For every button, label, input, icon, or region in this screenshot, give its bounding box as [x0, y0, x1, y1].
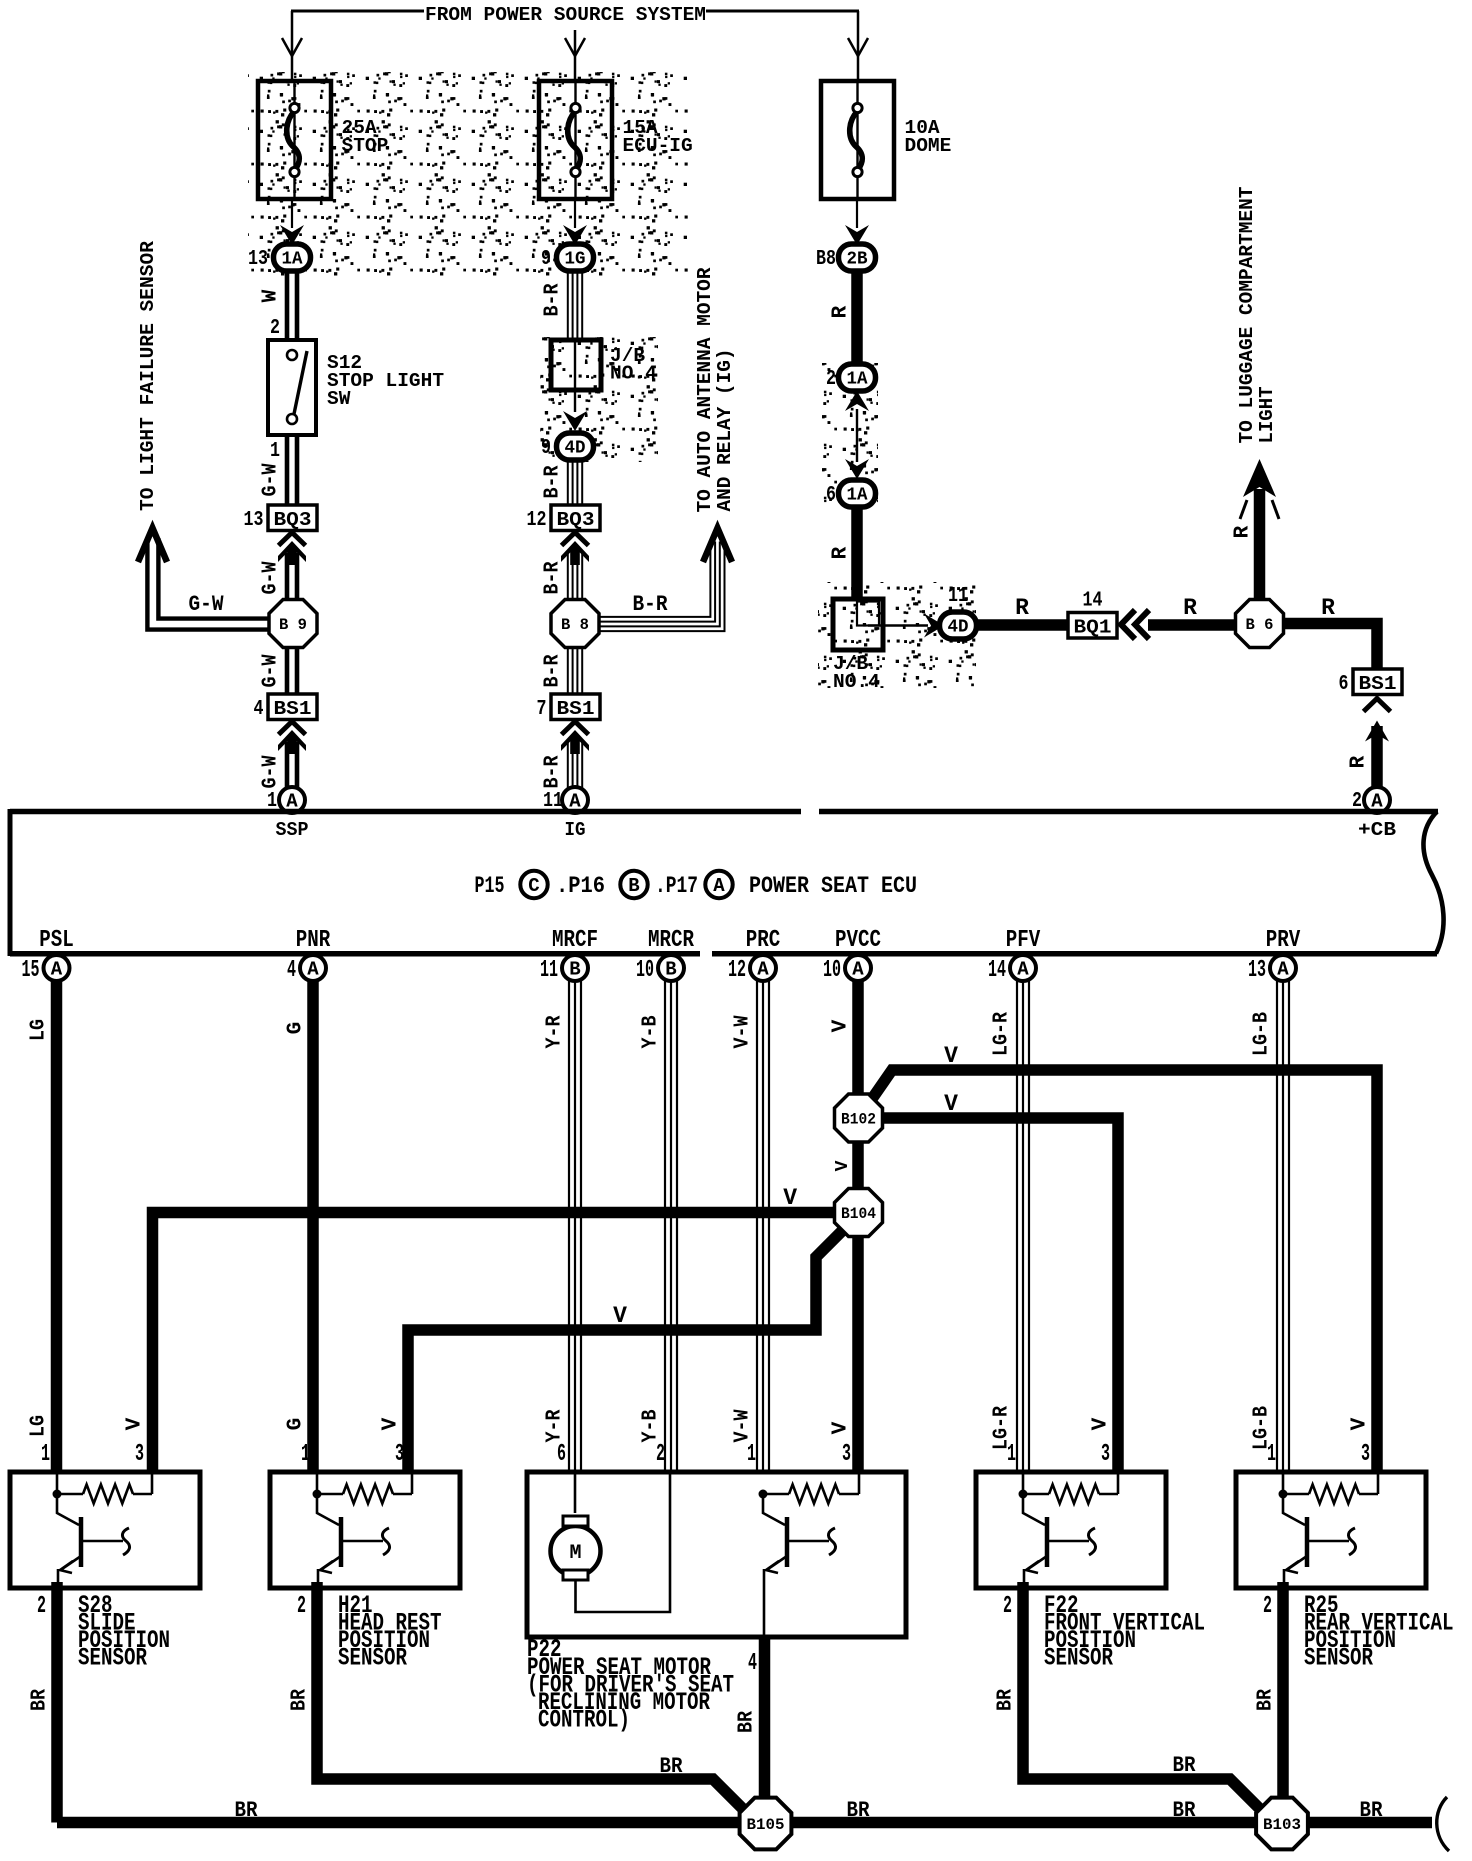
ECU pin 10 A (PVCC) — [823, 927, 881, 984]
svg-text:13: 13 — [1248, 957, 1266, 984]
svg-text:11: 11 — [948, 585, 968, 608]
wire Y-R from MRCF to P22 — [544, 981, 582, 1474]
svg-text:1A: 1A — [847, 486, 868, 506]
svg-text:PRC: PRC — [746, 927, 781, 954]
wire B-R to J/B No.4 — [542, 271, 583, 340]
wire G-W branch to light failure sensor — [138, 528, 269, 630]
svg-text:.P16: .P16 — [556, 873, 605, 899]
svg-text:V: V — [833, 1160, 853, 1171]
label TO AUTO ANTENNA MOTOR AND RELAY (IG) — [694, 267, 736, 512]
svg-text:2: 2 — [656, 1441, 665, 1468]
ECU pin 10 B (MRCR) — [636, 927, 694, 984]
wire V from B104 to S28 pin 3 — [124, 1185, 837, 1474]
svg-text:4: 4 — [254, 698, 264, 721]
wire R from 1A to J/B No.4 — [830, 507, 858, 599]
svg-text:NO.4: NO.4 — [610, 363, 657, 385]
wire V from PVCC to B102 — [830, 981, 859, 1095]
svg-text:V-W: V-W — [732, 1015, 755, 1048]
splice B 8 — [551, 600, 599, 648]
sensor H21 HEAD REST POSITION SENSOR — [270, 1441, 460, 1673]
wire B-R branch to auto antenna relay — [600, 528, 732, 631]
junction 13 BQ3 — [244, 505, 318, 532]
svg-text:A: A — [1017, 959, 1029, 981]
svg-text:M: M — [569, 1542, 581, 1565]
label J/B No.4 (DOME) — [833, 653, 880, 693]
svg-text:Y-B: Y-B — [640, 1015, 663, 1048]
svg-text:LG: LG — [28, 1415, 51, 1437]
svg-text:SW: SW — [327, 388, 351, 410]
wire G-W from S12 to junction BQ3 — [260, 435, 298, 505]
wire B-R from 4D to BQ3 — [542, 460, 583, 505]
svg-text:V: V — [380, 1417, 403, 1430]
svg-text:LG: LG — [28, 1019, 51, 1041]
wire Y-B from MRCR to P22 — [640, 981, 678, 1474]
svg-text:14: 14 — [1083, 590, 1103, 613]
svg-text:1: 1 — [1007, 1441, 1016, 1468]
svg-text:+CB: +CB — [1358, 819, 1396, 841]
svg-text:SENSOR: SENSOR — [338, 1644, 407, 1673]
svg-text:B102: B102 — [841, 1111, 876, 1129]
ECU pin 12 A (PRC) — [728, 927, 780, 984]
svg-text:BS1: BS1 — [274, 698, 312, 720]
svg-text:AND RELAY (IG): AND RELAY (IG) — [714, 349, 736, 512]
wire LG from PSL to S28 — [28, 981, 57, 1474]
wire G-W from ECU pin SSP with arrow — [260, 722, 307, 814]
svg-text:1: 1 — [1267, 1441, 1276, 1468]
label J/B No.4 — [610, 345, 657, 385]
svg-text:LG-R: LG-R — [991, 1012, 1014, 1056]
svg-text:R: R — [1321, 595, 1335, 621]
connector 11 4D — [924, 585, 977, 639]
svg-text:SENSOR: SENSOR — [78, 1644, 147, 1673]
splice B102 — [835, 1094, 883, 1142]
wire R from 4D to BQ1 — [977, 595, 1068, 625]
svg-text:BR: BR — [235, 1797, 258, 1823]
svg-text:TO LIGHT FAILURE SENSOR: TO LIGHT FAILURE SENSOR — [137, 241, 159, 511]
connector 2 1A — [826, 364, 876, 391]
svg-text:4D: 4D — [948, 618, 969, 638]
svg-text:B103: B103 — [1263, 1816, 1301, 1834]
junction 12 BQ3 — [527, 505, 601, 532]
wire G-W from BS1 to B9 — [260, 648, 298, 694]
svg-text:V: V — [944, 1043, 958, 1069]
wire LG-B from PRV to R25 — [1251, 981, 1290, 1474]
svg-text:3: 3 — [842, 1441, 851, 1468]
svg-text:R: R — [1183, 595, 1197, 621]
svg-text:10: 10 — [636, 957, 654, 984]
svg-text:B-R: B-R — [542, 283, 565, 316]
svg-text:1G: 1G — [565, 250, 586, 270]
ECU pin 2 A (+CB) — [1364, 787, 1390, 813]
wire B-R from B8 to BQ3 with arrow — [542, 533, 590, 601]
svg-text:15: 15 — [22, 957, 40, 984]
junction 4 BS1 — [254, 694, 318, 721]
ECU pin name SSP — [276, 819, 309, 841]
svg-text:B-R: B-R — [542, 465, 565, 498]
junction 7 BS1 — [537, 694, 601, 721]
svg-text:MRCR: MRCR — [648, 927, 694, 954]
junction 14 BQ1 — [1068, 590, 1117, 639]
wire from power source to ECU-IG fuse — [565, 30, 585, 81]
svg-text:V: V — [1090, 1417, 1113, 1430]
svg-text:2: 2 — [826, 368, 836, 391]
svg-text:B-R: B-R — [542, 561, 565, 594]
svg-text:B-R: B-R — [542, 755, 565, 788]
svg-text:13: 13 — [248, 248, 268, 271]
svg-text:V: V — [830, 1019, 853, 1032]
shaded area around 1A connectors (DOME column) — [822, 363, 878, 506]
switch S12 STOP LIGHT SW — [268, 340, 316, 435]
svg-text:4D: 4D — [565, 439, 586, 459]
svg-text:G-W: G-W — [260, 561, 283, 594]
wire G-W from B9 to BQ3 with arrow — [260, 533, 307, 601]
svg-text:7: 7 — [537, 698, 547, 721]
svg-text:B: B — [628, 875, 639, 897]
svg-text:NO.4: NO.4 — [833, 671, 880, 693]
svg-text:BR: BR — [1173, 1752, 1196, 1778]
svg-text:R: R — [1348, 755, 1371, 768]
svg-text:1: 1 — [270, 440, 280, 463]
svg-text:Y-R: Y-R — [544, 1409, 567, 1442]
svg-text:B-R: B-R — [633, 591, 668, 617]
svg-text:3: 3 — [395, 1441, 404, 1468]
wire R to luggage compartment light — [1232, 459, 1280, 599]
wire V-W from PRC to P22 — [732, 981, 770, 1474]
svg-text:2: 2 — [1003, 1593, 1012, 1620]
sensor R25 REAR VERTICAL POSITION SENSOR — [1236, 1441, 1454, 1673]
ECU pin 15 A (PSL) — [22, 927, 74, 984]
svg-text:P15: P15 — [475, 873, 505, 899]
svg-text:A: A — [51, 959, 63, 981]
svg-text:C: C — [528, 875, 539, 897]
wire R from ECU pin +CB with arrow — [1348, 699, 1391, 814]
ground bus BR — [57, 1797, 1449, 1851]
svg-text:6: 6 — [826, 484, 836, 507]
ECU pin name IG — [565, 819, 586, 841]
wire LG-R from PFV to F22 — [991, 981, 1030, 1474]
svg-text:R: R — [1232, 525, 1255, 538]
splice B104 — [835, 1189, 883, 1237]
svg-text:STOP: STOP — [342, 135, 389, 157]
svg-text:1: 1 — [747, 1441, 756, 1468]
svg-text:BR: BR — [660, 1753, 683, 1779]
svg-text:4: 4 — [287, 957, 296, 984]
ECU pin 14 A (PFV) — [988, 927, 1041, 984]
svg-text:3: 3 — [1101, 1441, 1110, 1468]
svg-text:6: 6 — [1339, 673, 1349, 696]
svg-text:PFV: PFV — [1006, 927, 1041, 954]
junction block J/B No.4 (IG) — [551, 340, 601, 390]
wire from DOME fuse to connector 2B — [845, 199, 869, 245]
svg-text:B: B — [569, 959, 580, 981]
sensor F22 FRONT VERTICAL POSITION SENSOR — [976, 1441, 1205, 1673]
svg-text:G: G — [285, 1418, 308, 1431]
splice B105 — [740, 1798, 792, 1850]
svg-text:V-W: V-W — [732, 1409, 755, 1442]
label P15 C P16 B P17 A POWER SEAT ECU — [475, 871, 918, 899]
svg-text:12: 12 — [728, 957, 746, 984]
shaded area around J/B No.4 (DOME column) — [818, 582, 976, 688]
svg-text:BS1: BS1 — [1359, 673, 1397, 695]
svg-text:BR: BR — [995, 1689, 1018, 1711]
svg-text:2: 2 — [1263, 1593, 1272, 1620]
POWER SEAT ECU box outline — [10, 809, 1444, 956]
wire from J/B No.4 to connector 4D — [563, 390, 587, 431]
svg-text:V: V — [783, 1185, 797, 1211]
wire V from B102 to F22 pin 3 — [881, 1091, 1118, 1474]
svg-text:IG: IG — [565, 819, 586, 841]
svg-text:A: A — [757, 959, 769, 981]
label P22 POWER SEAT MOTOR (FOR DRIVER'S SEAT RECLINING MOTOR CONTROL) — [527, 1635, 734, 1735]
ECU pin 11 A (IG) — [562, 787, 588, 813]
svg-text:CONTROL): CONTROL) — [538, 1706, 630, 1735]
svg-text:PNR: PNR — [296, 927, 331, 954]
svg-text:2: 2 — [270, 317, 280, 340]
svg-text:B8: B8 — [816, 248, 836, 271]
svg-text:Y-B: Y-B — [640, 1409, 663, 1442]
label S12 STOP LIGHT SW — [327, 352, 444, 410]
svg-text:A: A — [1277, 959, 1289, 981]
svg-text:V: V — [944, 1091, 958, 1117]
svg-text:PRV: PRV — [1266, 927, 1301, 954]
svg-text:12: 12 — [527, 509, 547, 532]
connector 13 1A — [248, 244, 311, 271]
wire between 1A connectors — [845, 391, 869, 479]
svg-text:B-R: B-R — [542, 654, 565, 687]
ECU pin 4 A (PNR) — [287, 927, 331, 984]
svg-text:G-W: G-W — [260, 755, 283, 788]
sensor S28 SLIDE POSITION SENSOR — [10, 1441, 200, 1673]
junction 6 BS1 — [1339, 669, 1403, 696]
svg-text:B: B — [665, 959, 676, 981]
wire BR from H21 pin 2 to B105 — [289, 1582, 751, 1816]
svg-text:BQ3: BQ3 — [557, 509, 595, 531]
connector 6 1A — [826, 480, 876, 507]
svg-text:G-W: G-W — [260, 654, 283, 687]
svg-text:A: A — [852, 959, 864, 981]
svg-text:1A: 1A — [282, 250, 303, 270]
svg-text:B105: B105 — [747, 1816, 785, 1834]
svg-text:BR: BR — [847, 1797, 870, 1823]
svg-text:LG-B: LG-B — [1251, 1012, 1274, 1056]
ECU pin 11 B (MRCF) — [540, 927, 598, 984]
svg-text:TO LUGGAGE COMPARTMENT: TO LUGGAGE COMPARTMENT — [1236, 186, 1258, 443]
connector B8 2B — [816, 244, 876, 271]
wire from power source to STOP fuse — [282, 11, 302, 81]
svg-text:A: A — [713, 875, 725, 897]
wire BR from P22 pin 4 to B105 — [736, 1637, 765, 1822]
svg-text:1A: 1A — [847, 370, 868, 390]
wire BR from F22 pin 2 to B103 — [995, 1582, 1268, 1816]
arrow chevrons toward BQ1 — [1121, 610, 1149, 639]
wire from STOP fuse to connector 1A — [280, 199, 304, 245]
wire R from B6 to BQ1 — [1148, 595, 1236, 625]
svg-text:BQ3: BQ3 — [274, 509, 312, 531]
svg-text:SENSOR: SENSOR — [1304, 1644, 1373, 1673]
svg-text:3: 3 — [135, 1441, 144, 1468]
wire V from B102 to B104 — [833, 1143, 858, 1190]
svg-text:FROM POWER SOURCE SYSTEM: FROM POWER SOURCE SYSTEM — [425, 4, 706, 26]
wire G from PNR to H21 — [285, 981, 314, 1474]
svg-text:G-W: G-W — [189, 591, 224, 617]
power source header line — [291, 10, 859, 13]
fuse 10A DOME — [821, 81, 951, 199]
motor P22 POWER SEAT MOTOR — [527, 1441, 906, 1637]
svg-text:13: 13 — [244, 509, 264, 532]
svg-text:1: 1 — [41, 1441, 50, 1468]
svg-text:B104: B104 — [841, 1205, 876, 1223]
svg-text:A: A — [307, 959, 319, 981]
svg-text:MRCF: MRCF — [552, 927, 598, 954]
svg-text:V: V — [1349, 1417, 1372, 1430]
svg-text:9: 9 — [541, 248, 551, 271]
svg-text:11: 11 — [540, 957, 558, 984]
svg-text:BQ1: BQ1 — [1074, 617, 1112, 639]
connector 9 1G — [541, 244, 594, 271]
svg-text:PVCC: PVCC — [835, 927, 881, 954]
fuse 15A ECU-IG — [539, 81, 693, 199]
svg-text:W: W — [260, 289, 283, 302]
svg-text:ECU-IG: ECU-IG — [623, 135, 693, 157]
splice B 9 — [269, 600, 317, 648]
svg-text:BS1: BS1 — [557, 698, 595, 720]
ECU pin name +CB — [1358, 819, 1396, 841]
svg-text:LIGHT: LIGHT — [1256, 386, 1278, 443]
splice B 6 — [1236, 600, 1284, 648]
svg-text:9: 9 — [541, 437, 551, 460]
svg-text:TO AUTO ANTENNA MOTOR: TO AUTO ANTENNA MOTOR — [694, 267, 716, 512]
svg-text:V: V — [124, 1417, 147, 1430]
svg-text:G-W: G-W — [260, 463, 283, 496]
wire from power source to DOME fuse — [848, 11, 868, 81]
shaded area around J/B No.4 (IG column) — [540, 337, 658, 462]
wire R from 2B to 1A — [830, 271, 858, 365]
junction block J/B No.4 (DOME) — [833, 599, 928, 650]
ECU pin 1 A (SSP) — [279, 787, 305, 813]
svg-text:6: 6 — [557, 1441, 566, 1468]
ECU pin 13 A (PRV) — [1248, 927, 1301, 984]
svg-text:R: R — [830, 305, 853, 318]
shaded area around STOP and ECU-IG fuses — [248, 72, 689, 276]
svg-text:R: R — [830, 546, 853, 559]
svg-text:BR: BR — [1173, 1797, 1196, 1823]
wire R from B6 to BS1 — [1284, 595, 1377, 669]
svg-text:BR: BR — [1360, 1797, 1383, 1823]
wire V from B102 to R25 pin 3 — [867, 1043, 1377, 1474]
svg-text:BR: BR — [736, 1711, 759, 1733]
svg-text:B 8: B 8 — [561, 616, 589, 634]
wire V from B104 to H21 pin 3 — [380, 1224, 850, 1474]
svg-text:SENSOR: SENSOR — [1044, 1644, 1113, 1673]
svg-text:V: V — [830, 1421, 853, 1434]
label TO LUGGAGE COMPARTMENT LIGHT — [1236, 186, 1278, 443]
wire from ECU-IG fuse to connector 1G — [563, 199, 587, 245]
svg-text:2: 2 — [37, 1593, 46, 1620]
svg-text:2B: 2B — [847, 250, 868, 270]
svg-text:BR: BR — [289, 1689, 312, 1711]
wire B-R from ECU pin IG with arrow — [542, 722, 590, 814]
splice B103 — [1256, 1798, 1308, 1850]
wire W to stop light switch — [260, 271, 298, 340]
wire BR from R25 pin 2 to B103 — [1255, 1582, 1284, 1822]
svg-text:BR: BR — [1255, 1689, 1278, 1711]
wire B-R from BS1 to B8 — [542, 648, 583, 694]
label FROM POWER SOURCE SYSTEM — [425, 4, 706, 26]
svg-text:R: R — [1015, 595, 1029, 621]
svg-text:B 9: B 9 — [279, 616, 307, 634]
svg-text:B 6: B 6 — [1246, 616, 1274, 634]
label TO LIGHT FAILURE SENSOR — [137, 241, 159, 511]
svg-text:SSP: SSP — [276, 819, 309, 841]
svg-text:PSL: PSL — [39, 927, 74, 954]
svg-text:G: G — [285, 1022, 308, 1035]
connector 9 4D — [541, 433, 594, 460]
fuse 25A STOP — [258, 81, 388, 199]
svg-text:DOME: DOME — [905, 135, 952, 157]
svg-text:3: 3 — [1361, 1441, 1370, 1468]
svg-text:V: V — [613, 1303, 627, 1329]
svg-text:1: 1 — [301, 1441, 310, 1468]
wire BR from S28 pin 2 to bus — [29, 1582, 58, 1823]
svg-text:14: 14 — [988, 957, 1006, 984]
svg-text:4: 4 — [748, 1650, 757, 1677]
svg-text:BR: BR — [29, 1689, 52, 1711]
svg-text:.P17: .P17 — [655, 873, 698, 899]
svg-text:10: 10 — [823, 957, 841, 984]
svg-text:Y-R: Y-R — [544, 1015, 567, 1048]
svg-text:2: 2 — [297, 1593, 306, 1620]
svg-text:POWER SEAT ECU: POWER SEAT ECU — [749, 873, 917, 899]
wire V from B104 to P22 pin 3 — [830, 1236, 859, 1474]
